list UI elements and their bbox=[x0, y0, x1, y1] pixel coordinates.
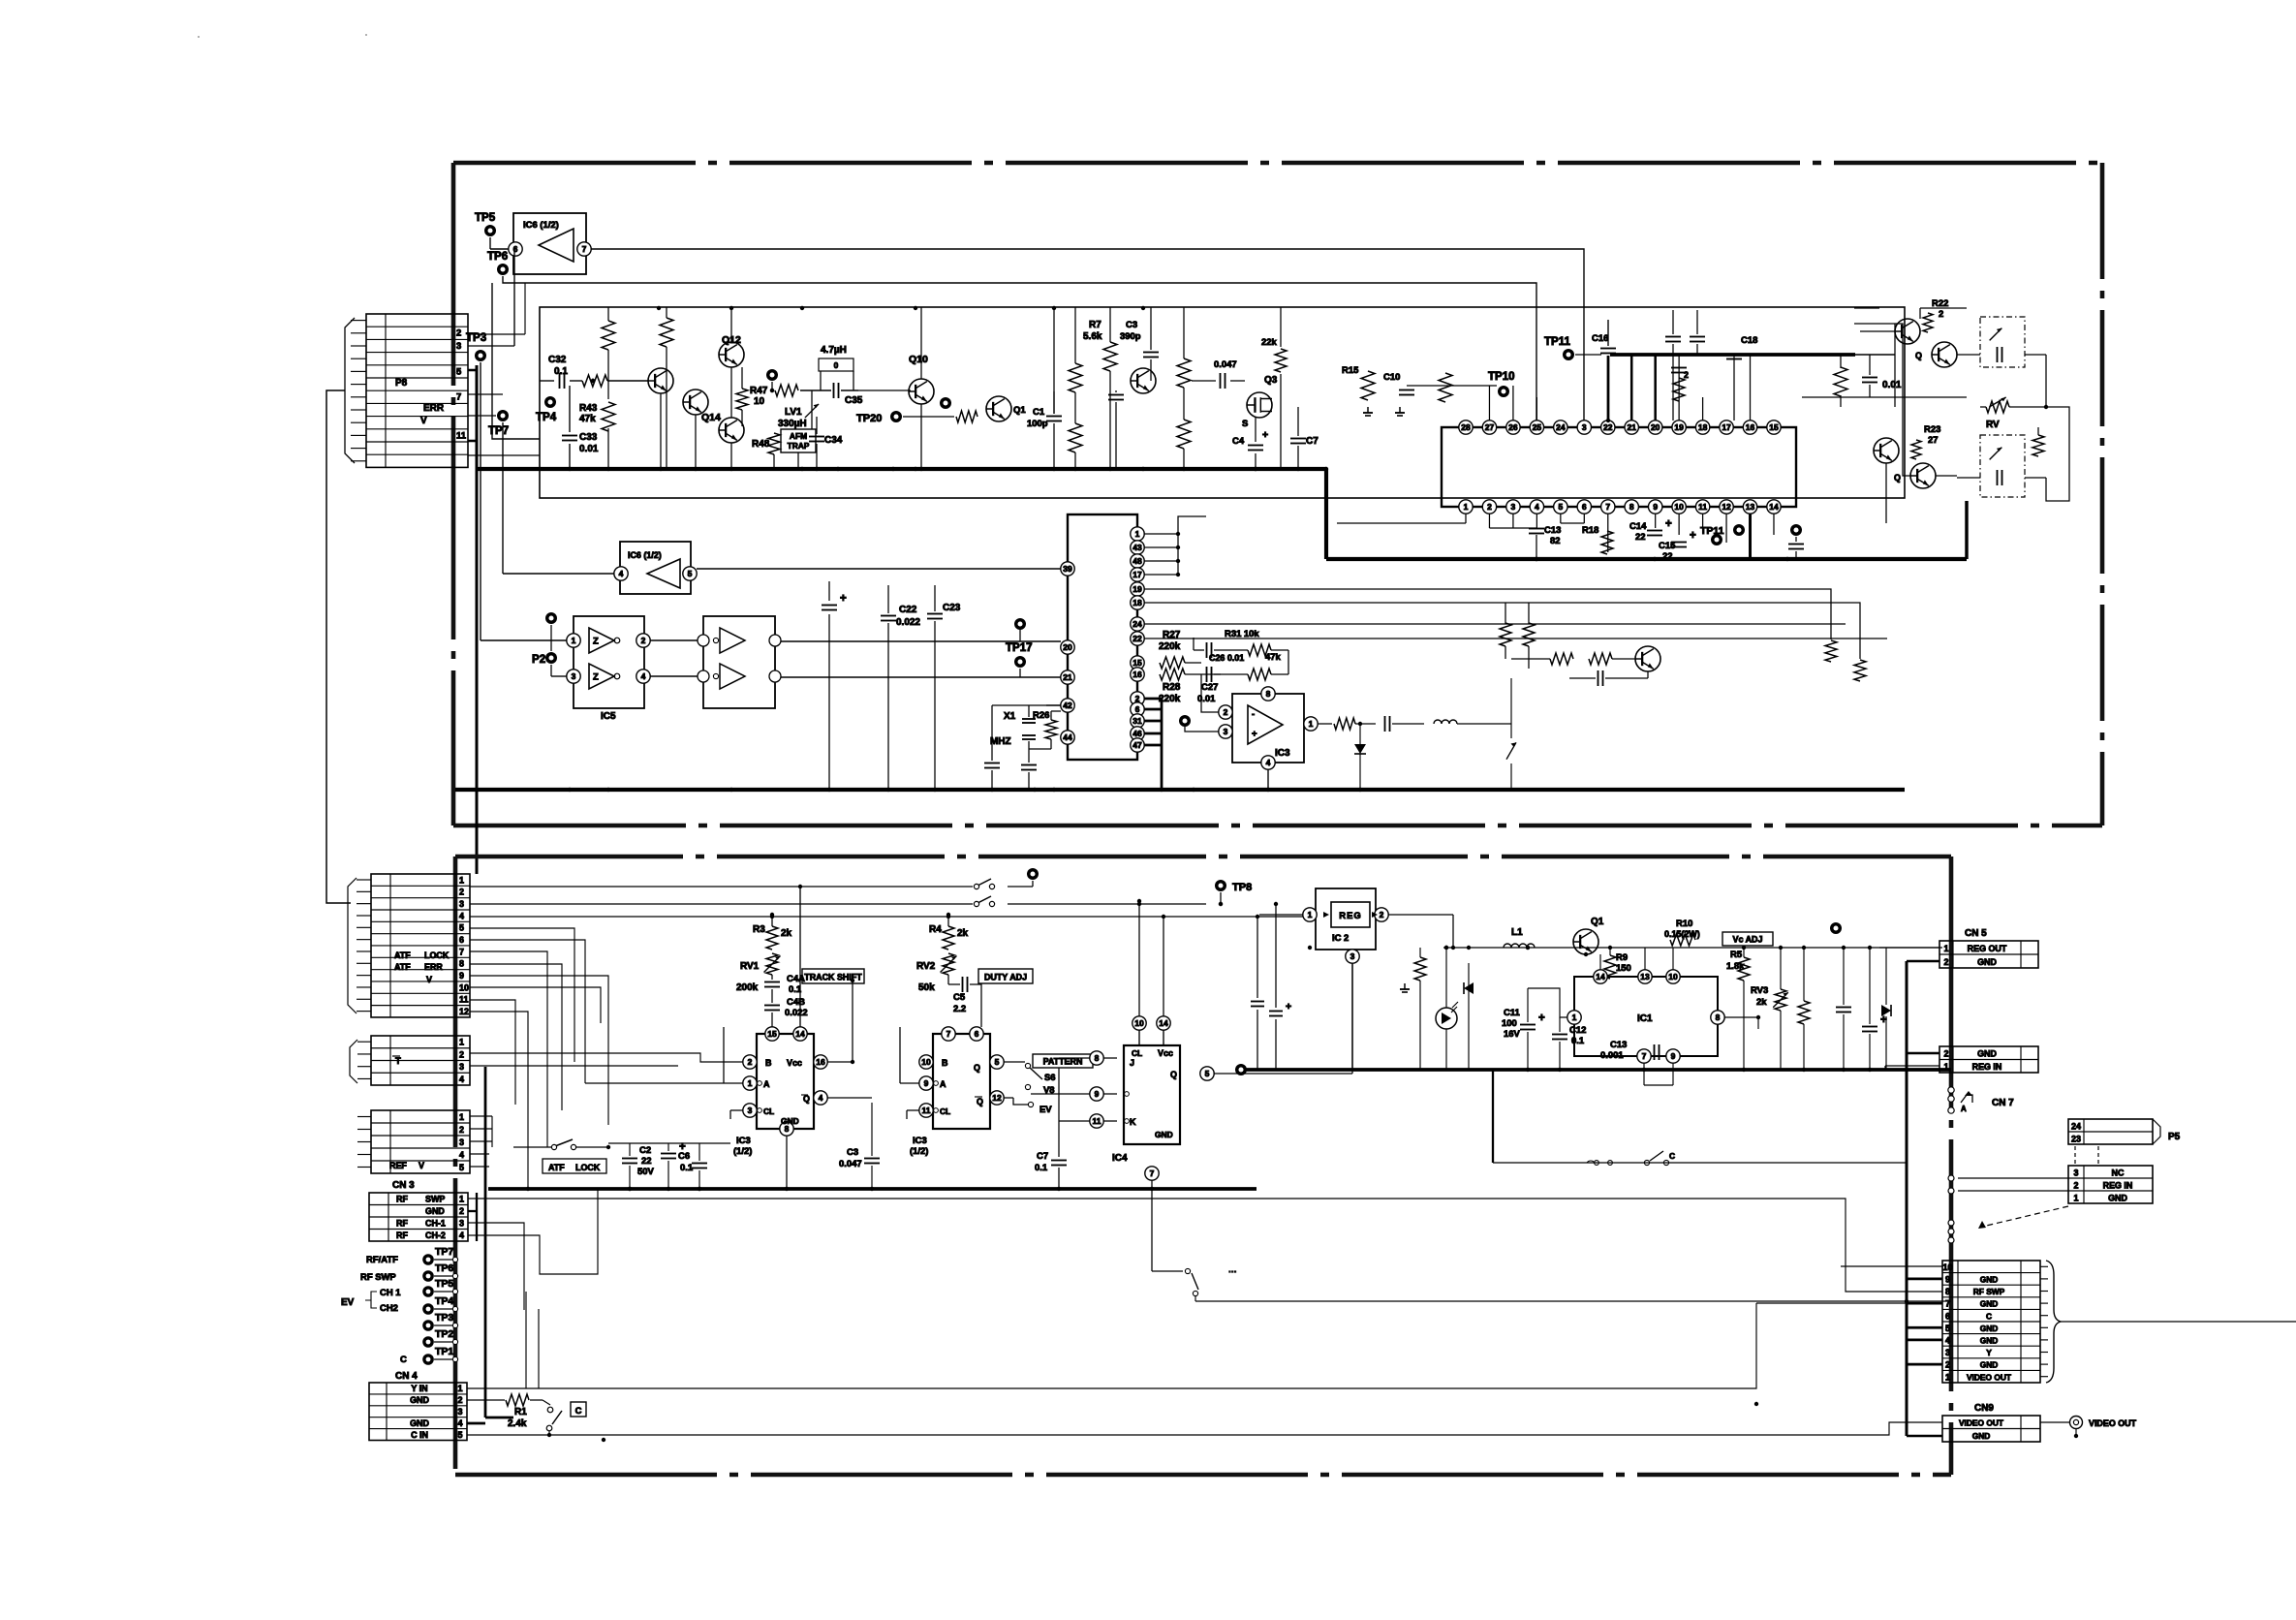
svg-text:16: 16 bbox=[816, 1057, 825, 1067]
svg-text:GND: GND bbox=[1980, 1360, 1999, 1370]
svg-text:220k: 220k bbox=[1159, 694, 1181, 704]
svg-text:-: - bbox=[1252, 709, 1255, 720]
svg-text:2k: 2k bbox=[1756, 997, 1767, 1008]
svg-text:9: 9 bbox=[1671, 1051, 1676, 1061]
svg-text:C4: C4 bbox=[1232, 436, 1245, 447]
svg-text:20: 20 bbox=[1651, 422, 1660, 432]
svg-text:GND: GND bbox=[2108, 1193, 2127, 1202]
svg-text:CL: CL bbox=[763, 1106, 774, 1116]
svg-text:Vcc: Vcc bbox=[787, 1058, 802, 1068]
svg-text:5: 5 bbox=[459, 1163, 464, 1172]
svg-text:RV3: RV3 bbox=[1751, 985, 1768, 996]
svg-text:11: 11 bbox=[1698, 502, 1707, 512]
svg-text:C14: C14 bbox=[1629, 521, 1647, 532]
svg-text:TP4: TP4 bbox=[435, 1295, 453, 1307]
svg-text:1: 1 bbox=[2074, 1193, 2079, 1202]
svg-text:Vc ADJ: Vc ADJ bbox=[1733, 935, 1763, 945]
svg-text:4: 4 bbox=[1266, 758, 1271, 767]
svg-text:1.8k: 1.8k bbox=[1726, 961, 1745, 972]
svg-text:0.1: 0.1 bbox=[554, 366, 568, 377]
svg-text:4: 4 bbox=[459, 1075, 464, 1084]
svg-text:6: 6 bbox=[975, 1029, 979, 1039]
svg-text:C26 0.01: C26 0.01 bbox=[1209, 653, 1244, 663]
svg-text:A: A bbox=[1961, 1105, 1967, 1113]
svg-text:3: 3 bbox=[456, 341, 461, 352]
svg-text:⋯: ⋯ bbox=[1228, 1266, 1236, 1276]
svg-text:C11: C11 bbox=[1504, 1008, 1520, 1018]
svg-text:+: + bbox=[840, 593, 847, 605]
svg-text:22: 22 bbox=[641, 1156, 652, 1167]
svg-text:100p: 100p bbox=[1027, 419, 1048, 429]
svg-text:+: + bbox=[1286, 1001, 1291, 1012]
svg-text:6: 6 bbox=[1945, 1311, 1950, 1321]
svg-text:6: 6 bbox=[459, 935, 464, 945]
svg-text:9: 9 bbox=[924, 1078, 929, 1088]
svg-text:3: 3 bbox=[1511, 502, 1516, 512]
svg-text:3: 3 bbox=[1350, 951, 1355, 961]
svg-text:0.15(2W): 0.15(2W) bbox=[1664, 929, 1700, 939]
svg-text:IC6 (1/2): IC6 (1/2) bbox=[523, 220, 559, 231]
svg-text:31: 31 bbox=[1132, 716, 1142, 726]
svg-text:RF: RF bbox=[396, 1231, 408, 1240]
svg-text:C IN: C IN bbox=[411, 1430, 428, 1440]
svg-text:16: 16 bbox=[1746, 422, 1755, 432]
svg-text:GND: GND bbox=[1980, 1324, 1999, 1333]
svg-text:IC 2: IC 2 bbox=[1332, 933, 1349, 944]
svg-text:3: 3 bbox=[1224, 727, 1228, 736]
svg-text:C7: C7 bbox=[1306, 436, 1319, 447]
svg-text:CN 5: CN 5 bbox=[1965, 928, 1987, 939]
svg-text:20: 20 bbox=[1063, 642, 1072, 652]
svg-text:X1: X1 bbox=[1004, 711, 1016, 722]
svg-text:LV1: LV1 bbox=[785, 407, 802, 418]
svg-text:9: 9 bbox=[1653, 502, 1658, 512]
svg-text:3: 3 bbox=[458, 1407, 463, 1417]
svg-text:C: C bbox=[575, 1406, 582, 1417]
svg-text:1: 1 bbox=[1944, 1062, 1949, 1072]
svg-text:47: 47 bbox=[1132, 740, 1142, 750]
svg-text:GND: GND bbox=[1980, 1275, 1999, 1285]
svg-text:1: 1 bbox=[1308, 910, 1313, 919]
svg-text:C: C bbox=[400, 1355, 407, 1365]
svg-text:Y: Y bbox=[1986, 1348, 1992, 1357]
svg-text:CH2: CH2 bbox=[380, 1303, 398, 1314]
svg-text:7: 7 bbox=[1605, 502, 1610, 512]
svg-text:GND: GND bbox=[425, 1206, 445, 1216]
svg-text:22: 22 bbox=[1662, 551, 1673, 562]
svg-text:+: + bbox=[1262, 429, 1268, 441]
svg-text:Q1: Q1 bbox=[1013, 405, 1026, 416]
svg-text:2: 2 bbox=[2074, 1180, 2079, 1190]
svg-text:2: 2 bbox=[641, 636, 646, 645]
svg-text:CN 4: CN 4 bbox=[395, 1371, 418, 1382]
svg-text:2: 2 bbox=[459, 1049, 464, 1059]
svg-text:+: + bbox=[1538, 1012, 1545, 1024]
svg-text:7: 7 bbox=[459, 947, 464, 956]
svg-text:4: 4 bbox=[619, 569, 624, 578]
svg-text:2: 2 bbox=[748, 1057, 753, 1067]
svg-text:24: 24 bbox=[2071, 1122, 2081, 1132]
svg-text:ERR: ERR bbox=[423, 403, 444, 414]
svg-text:10: 10 bbox=[459, 982, 469, 992]
svg-text:GND: GND bbox=[1980, 1336, 1999, 1346]
svg-text:TP3: TP3 bbox=[435, 1312, 453, 1324]
svg-text:GND: GND bbox=[1977, 1049, 1997, 1059]
svg-text:P2: P2 bbox=[532, 654, 545, 666]
svg-text:Q: Q bbox=[977, 1097, 983, 1106]
svg-text:REG IN: REG IN bbox=[2103, 1180, 2133, 1190]
svg-text:3: 3 bbox=[1582, 422, 1587, 432]
svg-text:2: 2 bbox=[1944, 1049, 1949, 1059]
svg-text:21: 21 bbox=[1063, 672, 1072, 682]
svg-text:8: 8 bbox=[1629, 502, 1634, 512]
svg-text:R48: R48 bbox=[752, 439, 770, 450]
svg-text:A: A bbox=[940, 1079, 946, 1089]
svg-text:SWP: SWP bbox=[425, 1195, 445, 1204]
svg-text:13: 13 bbox=[1640, 972, 1650, 981]
svg-text:R10: R10 bbox=[1676, 919, 1692, 929]
svg-text:3: 3 bbox=[748, 1106, 753, 1115]
svg-text:CN 3: CN 3 bbox=[392, 1180, 415, 1191]
svg-text:R18: R18 bbox=[1582, 525, 1598, 536]
svg-text:IC6 (1/2): IC6 (1/2) bbox=[628, 550, 662, 560]
svg-text:4.7µH: 4.7µH bbox=[821, 345, 847, 356]
svg-text:C10: C10 bbox=[1383, 372, 1400, 383]
svg-text:R1: R1 bbox=[514, 1407, 527, 1417]
svg-text:Q10: Q10 bbox=[909, 354, 928, 365]
svg-text:IC5: IC5 bbox=[601, 711, 616, 722]
svg-text:14: 14 bbox=[1596, 972, 1605, 981]
svg-text:17: 17 bbox=[1722, 422, 1731, 432]
svg-text:2.2: 2.2 bbox=[953, 1004, 966, 1014]
svg-text:24: 24 bbox=[1132, 619, 1142, 629]
svg-text:0.01: 0.01 bbox=[579, 444, 599, 454]
svg-text:10: 10 bbox=[754, 396, 765, 407]
svg-text:CN9: CN9 bbox=[1974, 1403, 1994, 1414]
svg-text:Q3: Q3 bbox=[1264, 375, 1278, 386]
svg-text:2: 2 bbox=[1380, 910, 1384, 919]
svg-text:TP10: TP10 bbox=[1488, 371, 1515, 383]
svg-text:TP17: TP17 bbox=[1006, 642, 1033, 654]
svg-text:14: 14 bbox=[1159, 1018, 1168, 1028]
svg-text:1: 1 bbox=[1572, 1012, 1577, 1022]
svg-text:2.4k: 2.4k bbox=[508, 1418, 527, 1429]
svg-text:RF: RF bbox=[396, 1195, 408, 1204]
svg-text:2: 2 bbox=[456, 328, 461, 339]
svg-text:23: 23 bbox=[2071, 1135, 2081, 1144]
svg-text:C6: C6 bbox=[678, 1151, 690, 1162]
svg-text:REG IN: REG IN bbox=[1972, 1062, 2002, 1072]
svg-text:LOCK: LOCK bbox=[424, 950, 450, 960]
svg-text:C15: C15 bbox=[1659, 541, 1675, 551]
svg-text:J: J bbox=[1130, 1058, 1134, 1068]
svg-text:S: S bbox=[1242, 419, 1248, 429]
svg-text:1: 1 bbox=[748, 1078, 753, 1088]
svg-text:B: B bbox=[765, 1058, 772, 1068]
svg-text:C2: C2 bbox=[639, 1145, 651, 1156]
svg-text:3: 3 bbox=[459, 1137, 464, 1147]
svg-text:RF SWP: RF SWP bbox=[360, 1272, 396, 1283]
svg-text:10: 10 bbox=[1134, 1018, 1144, 1028]
svg-text:+: + bbox=[1252, 729, 1257, 739]
svg-text:Q: Q bbox=[1915, 351, 1922, 360]
svg-text:Y IN: Y IN bbox=[411, 1384, 427, 1393]
svg-text:R26: R26 bbox=[1033, 710, 1049, 721]
svg-text:0.047: 0.047 bbox=[839, 1159, 862, 1169]
svg-text:LOCK: LOCK bbox=[575, 1163, 601, 1172]
svg-text:R22: R22 bbox=[1932, 298, 1948, 309]
svg-text:13: 13 bbox=[1746, 502, 1755, 512]
svg-text:7: 7 bbox=[946, 1029, 951, 1039]
svg-text:(1/2): (1/2) bbox=[733, 1146, 752, 1157]
svg-text:0.022: 0.022 bbox=[896, 617, 920, 628]
svg-text:GND: GND bbox=[410, 1418, 429, 1428]
svg-text:TP6: TP6 bbox=[435, 1262, 453, 1274]
svg-text:ATF: ATF bbox=[548, 1163, 565, 1172]
svg-text:GND: GND bbox=[410, 1395, 429, 1405]
svg-text:25: 25 bbox=[1533, 422, 1542, 432]
svg-text:0.1: 0.1 bbox=[680, 1163, 693, 1173]
svg-text:TP6: TP6 bbox=[487, 251, 508, 263]
svg-text:R27: R27 bbox=[1163, 630, 1181, 640]
svg-text:B: B bbox=[942, 1058, 948, 1068]
svg-text:ATF: ATF bbox=[394, 962, 411, 972]
svg-text:ERR: ERR bbox=[424, 962, 443, 972]
svg-text:R15: R15 bbox=[1342, 365, 1358, 376]
svg-text:48: 48 bbox=[1132, 556, 1142, 566]
svg-text:3: 3 bbox=[2074, 1168, 2079, 1177]
svg-text:RV: RV bbox=[1986, 420, 2000, 430]
svg-text:R5: R5 bbox=[1730, 950, 1742, 960]
svg-text:2: 2 bbox=[1684, 370, 1689, 380]
svg-text:7: 7 bbox=[456, 392, 461, 403]
svg-text:11: 11 bbox=[459, 995, 468, 1005]
svg-text:Vcc: Vcc bbox=[1158, 1048, 1173, 1058]
svg-text:4: 4 bbox=[1535, 502, 1539, 512]
svg-text:TP11: TP11 bbox=[1700, 525, 1724, 537]
svg-text:IC1: IC1 bbox=[1637, 1013, 1653, 1024]
svg-text:27: 27 bbox=[1485, 422, 1495, 432]
svg-text:0.001: 0.001 bbox=[1600, 1050, 1624, 1061]
svg-text:14: 14 bbox=[1769, 502, 1779, 512]
svg-text:3: 3 bbox=[459, 1062, 464, 1072]
svg-text:50V: 50V bbox=[637, 1167, 654, 1177]
svg-text:C7: C7 bbox=[1037, 1151, 1048, 1162]
svg-text:+: + bbox=[1690, 530, 1696, 542]
svg-text:330µH: 330µH bbox=[778, 419, 807, 429]
svg-text:2k: 2k bbox=[781, 928, 792, 939]
svg-text:2: 2 bbox=[459, 888, 464, 897]
svg-text:3: 3 bbox=[572, 671, 576, 681]
svg-text:5: 5 bbox=[459, 923, 464, 933]
svg-text:39: 39 bbox=[1063, 564, 1072, 574]
svg-text:7: 7 bbox=[582, 244, 587, 254]
svg-text:0.01: 0.01 bbox=[1197, 694, 1215, 704]
svg-text:R43: R43 bbox=[579, 403, 598, 414]
svg-text:22: 22 bbox=[1603, 422, 1613, 432]
svg-text:C4A: C4A bbox=[787, 974, 805, 984]
svg-text:C3: C3 bbox=[847, 1147, 858, 1158]
svg-text:K: K bbox=[1130, 1117, 1136, 1127]
svg-text:R3: R3 bbox=[753, 924, 765, 935]
svg-text:5: 5 bbox=[1205, 1069, 1210, 1078]
svg-text:9: 9 bbox=[459, 971, 464, 981]
svg-text:2: 2 bbox=[1939, 309, 1943, 320]
svg-text:8: 8 bbox=[1716, 1012, 1721, 1022]
svg-text:NC: NC bbox=[2112, 1168, 2125, 1177]
svg-text:R47: R47 bbox=[750, 386, 768, 396]
svg-text:3: 3 bbox=[459, 1219, 464, 1229]
svg-text:CH-2: CH-2 bbox=[425, 1231, 446, 1240]
svg-text:47k: 47k bbox=[1265, 652, 1281, 663]
svg-text:Q: Q bbox=[1170, 1070, 1177, 1079]
svg-text:0.1: 0.1 bbox=[1035, 1163, 1047, 1173]
svg-text:Z: Z bbox=[593, 637, 599, 647]
svg-text:C12: C12 bbox=[1569, 1025, 1586, 1036]
svg-text:AFM: AFM bbox=[790, 431, 807, 441]
svg-text:0.047: 0.047 bbox=[1214, 359, 1237, 370]
svg-text:MHZ: MHZ bbox=[990, 736, 1011, 747]
svg-text:2: 2 bbox=[1487, 502, 1492, 512]
svg-text:1: 1 bbox=[459, 875, 464, 885]
svg-text:12: 12 bbox=[992, 1093, 1002, 1103]
svg-text:14: 14 bbox=[795, 1029, 805, 1039]
svg-text:C1: C1 bbox=[1033, 407, 1044, 418]
svg-text:8: 8 bbox=[1266, 689, 1271, 699]
svg-text:IC3: IC3 bbox=[913, 1136, 927, 1146]
svg-text:9: 9 bbox=[1945, 1275, 1950, 1285]
svg-text:C16: C16 bbox=[1592, 333, 1608, 344]
svg-text:3: 3 bbox=[459, 899, 464, 909]
svg-text:43: 43 bbox=[1132, 543, 1142, 552]
svg-text:4: 4 bbox=[458, 1418, 463, 1428]
svg-text:C23: C23 bbox=[943, 603, 961, 613]
svg-text:2: 2 bbox=[1944, 957, 1949, 967]
svg-text:V: V bbox=[426, 975, 432, 984]
svg-text:GND: GND bbox=[1155, 1130, 1173, 1139]
svg-text:22: 22 bbox=[1132, 634, 1142, 643]
svg-text:11: 11 bbox=[456, 430, 466, 441]
svg-text:CL: CL bbox=[1132, 1048, 1142, 1058]
svg-text:1: 1 bbox=[572, 636, 576, 645]
svg-text:1: 1 bbox=[458, 1384, 463, 1393]
svg-text:C27: C27 bbox=[1201, 682, 1218, 693]
svg-text:REG: REG bbox=[1339, 911, 1361, 921]
svg-text:C: C bbox=[1986, 1311, 1992, 1321]
svg-text:15: 15 bbox=[1132, 658, 1142, 668]
svg-text:1: 1 bbox=[1135, 529, 1140, 539]
svg-text:RF SWP: RF SWP bbox=[1973, 1287, 2005, 1296]
svg-text:1: 1 bbox=[1944, 944, 1949, 953]
svg-text:TP7: TP7 bbox=[435, 1246, 453, 1258]
svg-text:3: 3 bbox=[1945, 1348, 1950, 1357]
svg-text:TP1: TP1 bbox=[435, 1346, 453, 1357]
svg-text:Z: Z bbox=[593, 672, 599, 683]
svg-text:IC4: IC4 bbox=[1112, 1153, 1128, 1164]
svg-text:50k: 50k bbox=[918, 982, 935, 993]
svg-text:GND: GND bbox=[781, 1116, 799, 1126]
svg-text:4: 4 bbox=[459, 1150, 464, 1160]
svg-text:1: 1 bbox=[1309, 719, 1314, 729]
svg-text:R4: R4 bbox=[929, 924, 942, 935]
svg-text:100: 100 bbox=[1502, 1018, 1517, 1029]
svg-text:390p: 390p bbox=[1120, 331, 1141, 342]
svg-text:11: 11 bbox=[1093, 1116, 1101, 1126]
svg-text:10: 10 bbox=[1674, 502, 1684, 512]
svg-text:C5: C5 bbox=[953, 992, 965, 1003]
svg-text:GND: GND bbox=[1977, 957, 1997, 967]
svg-text:R23: R23 bbox=[1924, 424, 1940, 435]
svg-text:0.01: 0.01 bbox=[1882, 380, 1902, 390]
svg-text:24: 24 bbox=[1556, 422, 1566, 432]
svg-text:1: 1 bbox=[1945, 1372, 1950, 1382]
svg-text:CN 7: CN 7 bbox=[1992, 1098, 2014, 1108]
svg-text:1: 1 bbox=[459, 1112, 464, 1122]
svg-text:L1: L1 bbox=[1511, 927, 1523, 938]
svg-text:C33: C33 bbox=[579, 432, 598, 443]
svg-text:C13: C13 bbox=[1544, 525, 1561, 536]
svg-text:1: 1 bbox=[1464, 502, 1469, 512]
svg-text:16V: 16V bbox=[1504, 1029, 1520, 1040]
svg-text:(1/2): (1/2) bbox=[910, 1146, 928, 1157]
svg-text:V: V bbox=[420, 416, 427, 426]
svg-text:15: 15 bbox=[767, 1029, 777, 1039]
svg-text:5: 5 bbox=[1558, 502, 1563, 512]
svg-text:TP2: TP2 bbox=[435, 1328, 453, 1340]
svg-text:C: C bbox=[1669, 1151, 1675, 1161]
svg-text:4: 4 bbox=[819, 1093, 823, 1103]
svg-text:4: 4 bbox=[1945, 1336, 1950, 1346]
svg-text:RV2: RV2 bbox=[916, 961, 936, 972]
svg-text:C34: C34 bbox=[824, 435, 843, 446]
svg-text:7: 7 bbox=[1150, 1168, 1155, 1178]
svg-text:R9: R9 bbox=[1616, 952, 1628, 963]
svg-text:18: 18 bbox=[1698, 422, 1708, 432]
svg-text:18: 18 bbox=[1132, 598, 1142, 607]
svg-text:1: 1 bbox=[459, 1038, 464, 1047]
svg-text:42: 42 bbox=[1063, 701, 1072, 710]
svg-text:4: 4 bbox=[459, 911, 464, 920]
svg-text:0.1: 0.1 bbox=[1571, 1036, 1584, 1046]
svg-text:RV1: RV1 bbox=[740, 961, 760, 972]
svg-text:6: 6 bbox=[1582, 502, 1587, 512]
svg-text:22k: 22k bbox=[1261, 337, 1277, 348]
svg-text:DUTY ADJ: DUTY ADJ bbox=[984, 973, 1027, 982]
svg-text:P5: P5 bbox=[2168, 1132, 2181, 1142]
svg-text:21: 21 bbox=[1627, 422, 1636, 432]
svg-text:ATF: ATF bbox=[394, 950, 411, 960]
svg-text:+: + bbox=[1665, 518, 1672, 530]
svg-text:VIDEO OUT: VIDEO OUT bbox=[2089, 1418, 2137, 1428]
svg-text:C13: C13 bbox=[1610, 1040, 1627, 1050]
svg-text:EV: EV bbox=[1039, 1105, 1052, 1115]
svg-text:2: 2 bbox=[458, 1395, 463, 1405]
svg-text:11: 11 bbox=[922, 1106, 931, 1115]
svg-text:IC3: IC3 bbox=[1275, 748, 1290, 759]
svg-text:REG OUT: REG OUT bbox=[1968, 944, 2007, 953]
svg-text:47k: 47k bbox=[579, 414, 596, 424]
svg-text:R31 10k: R31 10k bbox=[1225, 629, 1259, 639]
svg-text:17: 17 bbox=[1132, 570, 1142, 579]
svg-text:7: 7 bbox=[1945, 1299, 1950, 1309]
svg-text:0.1: 0.1 bbox=[789, 984, 801, 995]
svg-text:12: 12 bbox=[459, 1007, 469, 1016]
svg-text:Q14: Q14 bbox=[701, 412, 721, 423]
svg-text:TP20: TP20 bbox=[856, 413, 882, 424]
svg-text:220k: 220k bbox=[1159, 641, 1181, 652]
svg-text:27: 27 bbox=[1928, 435, 1939, 446]
svg-text:C18: C18 bbox=[1741, 335, 1757, 346]
